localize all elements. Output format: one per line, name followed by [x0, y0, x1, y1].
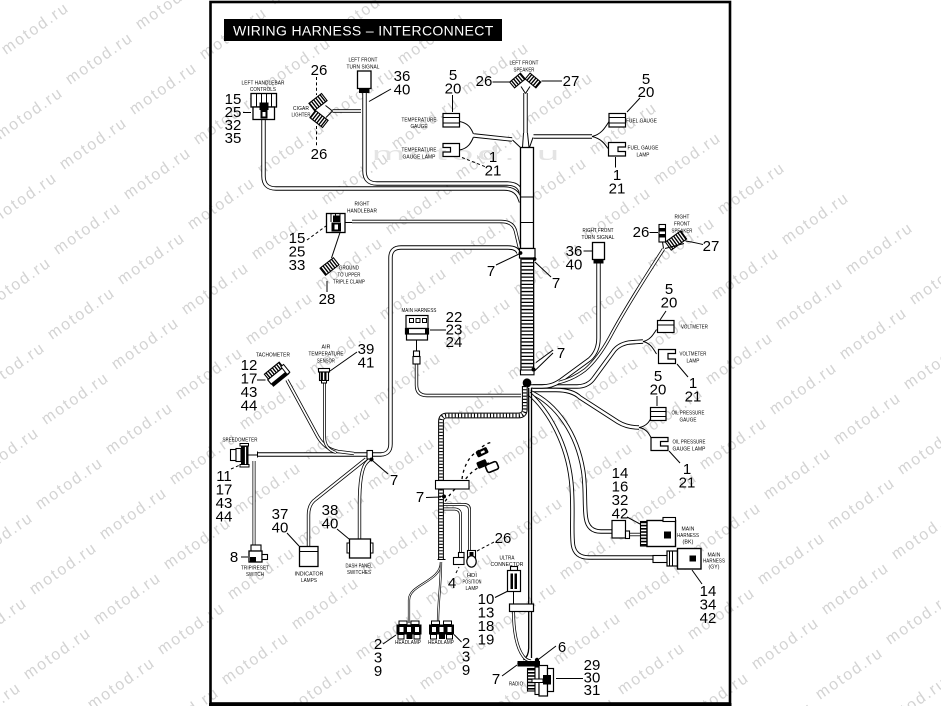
fuel gauge lamp connector: [609, 143, 626, 157]
leader 7 junction: [373, 461, 388, 474]
oil pressure gauge connector: [651, 408, 667, 421]
label fuel gauge: [626, 119, 657, 125]
svg-text:SWITCH: SWITCH: [246, 572, 264, 578]
left handlebar controls connector: [251, 94, 277, 120]
wire right front turn signal to hub: [533, 263, 599, 387]
item numbers 36 40 right turn signal: [566, 243, 583, 274]
svg-text:GAUGE: GAUGE: [411, 124, 428, 130]
position lamp bulb 26: [467, 551, 476, 568]
label right front turn signal: [582, 228, 615, 241]
leader 27 right: [686, 241, 704, 245]
item numbers 4 position lamp: [448, 575, 456, 592]
svg-text:RADIO: RADIO: [509, 682, 523, 688]
wire from indicator lamps up to junction: [309, 459, 367, 546]
svg-text:WIRING HARNESS – INTERCONNECT: WIRING HARNESS – INTERCONNECT: [233, 23, 494, 39]
leader 36 40 left: [369, 89, 391, 102]
leader 25: [243, 112, 251, 114]
wire from air temperature sensor to run: [325, 383, 337, 453]
wire from cigar lighter to turn signal wire: [333, 109, 362, 112]
leader 38 40: [337, 529, 349, 539]
voltmeter connector: [658, 321, 675, 333]
leader 14 34 42: [692, 570, 702, 584]
label oil pressure gauge: [672, 411, 705, 424]
label air temperature sensor: [309, 345, 344, 365]
svg-text:20: 20: [445, 81, 462, 98]
svg-text:TURN SIGNAL: TURN SIGNAL: [347, 65, 380, 71]
fuel fork wires: [592, 122, 609, 149]
svg-text:31: 31: [584, 682, 601, 699]
frame bottom thick edge: [209, 703, 732, 706]
conduit main vertical: [520, 259, 534, 371]
item numbers 10 13 18 19 ultra: [478, 591, 495, 649]
svg-text:HEADLAMP: HEADLAMP: [395, 640, 421, 646]
label right headlamp: [428, 640, 454, 646]
wire from main harness connector to hub: [417, 364, 522, 396]
label fuel gauge lamp: [628, 146, 659, 159]
radio junction bar: [517, 658, 540, 667]
svg-text:(BK): (BK): [683, 540, 694, 546]
label ultra connector: [491, 556, 524, 569]
main harness GY connector: [667, 549, 701, 570]
radio assembly: [528, 666, 554, 697]
cable strap junction on speedometer run: [367, 451, 374, 462]
svg-text:21: 21: [609, 181, 626, 198]
svg-text:42: 42: [612, 506, 629, 523]
svg-text:7: 7: [390, 472, 398, 489]
item numbers 1 21 temperature lamp: [485, 149, 502, 180]
svg-text:20: 20: [661, 295, 678, 312]
svg-text:SENSOR: SENSOR: [317, 359, 335, 365]
svg-text:LEFT FRONT: LEFT FRONT: [510, 61, 539, 67]
svg-text:33: 33: [289, 257, 306, 274]
wire hub to main harness GY: [529, 394, 653, 558]
ultra connector: [508, 567, 521, 605]
leader 5 20 voltmeter: [660, 311, 666, 320]
svg-text:CIGAR: CIGAR: [293, 106, 309, 112]
label trip reset switch: [241, 566, 269, 579]
label cigar lighter: [292, 106, 311, 119]
voltmeter fork wires: [643, 330, 657, 355]
item numbers 7 collar right: [552, 275, 560, 292]
item numbers 5 20 fuel gauge: [638, 71, 655, 101]
svg-text:AIR: AIR: [322, 345, 331, 351]
leader 7 hub: [535, 350, 554, 371]
item numbers 26 cigar upper: [311, 62, 328, 79]
leader 6: [539, 646, 556, 659]
item numbers 15 25 32 35 left handlebar: [225, 91, 242, 147]
leader 4 dashed: [456, 567, 459, 573]
ground to upper triple clamp connector: [320, 258, 339, 276]
label left front speaker: [510, 61, 539, 74]
svg-text:40: 40: [272, 520, 289, 537]
label dash panel switches: [346, 564, 373, 577]
svg-text:8: 8: [230, 549, 238, 566]
voltmeter lamp connector: [659, 350, 676, 364]
oil pressure gauge lamp connector: [651, 438, 668, 451]
leader 7 radio: [502, 665, 517, 676]
svg-text:POSITION: POSITION: [463, 580, 482, 586]
item numbers 6 radio strap: [558, 639, 566, 656]
left front turn signal lamp: [358, 71, 372, 93]
wire conduit to left headlamp: [409, 562, 441, 623]
svg-text:20: 20: [638, 84, 655, 101]
air temperature sensor: [319, 369, 330, 384]
svg-text:21: 21: [679, 475, 696, 492]
leader 5 20 oil: [656, 396, 658, 406]
label tachometer: [256, 353, 290, 359]
right front speaker connector: [665, 231, 686, 250]
trunk fan lines at sleeve top: [513, 133, 534, 148]
conduit end cap: [438, 559, 446, 561]
svg-text:SPEAKER: SPEAKER: [514, 68, 535, 74]
leader 23: [430, 329, 446, 331]
svg-text:7: 7: [487, 263, 495, 280]
item numbers 22 23 24 main harness: [446, 309, 463, 351]
item numbers 29 30 31 radio: [584, 657, 601, 699]
item numbers 36 40 left turn signal: [394, 68, 411, 99]
svg-text:26: 26: [495, 530, 512, 547]
item numbers 39 41 air temp sensor: [358, 341, 375, 372]
svg-text:9: 9: [462, 662, 470, 679]
svg-text:(GY): (GY): [709, 565, 720, 571]
label ground to upper triple clamp: [333, 266, 365, 286]
item numbers 7 radio: [492, 671, 500, 688]
svg-text:RIGHT: RIGHT: [355, 202, 370, 208]
left speaker V wires: [521, 87, 530, 94]
item numbers 7 hub: [557, 345, 565, 362]
ultra clamp bar: [510, 604, 534, 612]
svg-text:28: 28: [319, 291, 336, 308]
svg-text:4: 4: [448, 575, 456, 592]
svg-text:SPEEDOMETER: SPEEDOMETER: [223, 438, 258, 444]
wire hub to voltmeter fork: [531, 342, 643, 387]
svg-text:ULTRA: ULTRA: [500, 556, 515, 562]
svg-text:19: 19: [478, 632, 495, 649]
leader 10 ultra: [495, 591, 508, 598]
cable strap on conduit: [442, 495, 446, 499]
left headlamp connector: [397, 621, 422, 639]
svg-text:35: 35: [225, 130, 242, 147]
item numbers 26 left speaker: [476, 73, 493, 90]
leader 2 3 9 left: [383, 635, 396, 644]
main harness BK ferrule: [626, 531, 630, 539]
svg-text:40: 40: [566, 257, 583, 274]
label hdi position lamp: [463, 573, 482, 592]
right speaker V wires: [663, 242, 685, 249]
item numbers 38 40 dash panel: [322, 502, 339, 533]
leader 7 collar left: [496, 254, 519, 265]
svg-text:TURN SIGNAL: TURN SIGNAL: [582, 235, 615, 241]
svg-text:GROUND: GROUND: [339, 266, 359, 272]
svg-text:GAUGE LAMP: GAUGE LAMP: [403, 155, 436, 161]
leader 37 40: [287, 533, 299, 546]
svg-text:7: 7: [492, 671, 500, 688]
item numbers 7 junction: [390, 472, 398, 489]
svg-text:26: 26: [311, 146, 328, 163]
svg-text:26: 26: [633, 224, 650, 241]
cigar lighter connector upper: [309, 94, 327, 111]
temperature fork wires: [460, 122, 474, 151]
leader 39 41: [330, 352, 357, 371]
wire from left handlebar controls to trunk: [264, 120, 522, 203]
svg-text:SWITCHES: SWITCHES: [347, 570, 371, 576]
leader 1 21 fuel: [615, 157, 617, 168]
service loop connectors: [475, 447, 499, 473]
item numbers 26 position bulb: [495, 530, 512, 547]
label right handlebar: [347, 202, 377, 215]
wire conduit to position lamp bulb: [443, 505, 470, 551]
item numbers 11 17 43 44 speedometer: [216, 468, 233, 526]
main harness BK connector: [641, 518, 676, 547]
svg-text:TEMPERATURE: TEMPERATURE: [309, 352, 344, 358]
svg-text:HANDLEBAR: HANDLEBAR: [347, 209, 377, 215]
right front turn signal lamp: [593, 243, 605, 264]
svg-text:26: 26: [476, 73, 493, 90]
wire speedometer run riser to trunk collar: [258, 248, 519, 455]
label voltmeter lamp: [680, 352, 707, 365]
svg-text:TO UPPER: TO UPPER: [338, 273, 361, 279]
leader 26 right: [650, 232, 659, 234]
wire from dash panel switches up to junction: [360, 459, 371, 539]
svg-text:LAMP: LAMP: [637, 153, 650, 159]
label left front turn signal: [347, 58, 380, 71]
svg-text:VOLTMETER: VOLTMETER: [681, 325, 708, 331]
wire hub to radio junction right conductor: [531, 388, 533, 658]
svg-text:41: 41: [358, 355, 375, 372]
item numbers 1 21 oil lamp: [679, 461, 696, 492]
svg-text:7: 7: [416, 489, 424, 506]
right headlamp connector: [429, 621, 454, 639]
svg-text:LAMP: LAMP: [466, 586, 479, 592]
svg-text:40: 40: [322, 516, 339, 533]
svg-text:21: 21: [685, 389, 702, 406]
conduit hub joint: [523, 368, 536, 388]
cigar lighter connector lower: [310, 111, 328, 128]
svg-text:FRONT: FRONT: [674, 222, 690, 228]
svg-text:OIL PRESSURE: OIL PRESSURE: [673, 440, 706, 446]
left front speaker connector left: [510, 73, 526, 88]
right handlebar connector: [327, 214, 353, 233]
svg-text:TEMPERATURE: TEMPERATURE: [402, 148, 437, 154]
title bar: [224, 19, 502, 41]
svg-text:GAUGE LAMP: GAUGE LAMP: [673, 447, 706, 453]
trunk sleeve: [521, 148, 534, 249]
svg-text:HARNESS: HARNESS: [677, 533, 699, 539]
leader 26 left speaker: [493, 81, 511, 83]
leader 36 40 right: [584, 250, 593, 252]
left front speaker connector right: [525, 73, 541, 88]
leader 2 3 9 right: [454, 635, 462, 643]
item numbers 12 17 43 44 tachometer: [241, 357, 258, 415]
svg-text:GAUGE: GAUGE: [680, 418, 697, 424]
leader 1 21 oil lamp: [669, 451, 680, 463]
leader 28: [326, 281, 328, 292]
svg-text:27: 27: [703, 238, 720, 255]
leader 42 BK: [627, 517, 640, 524]
main harness GY ferrule: [653, 556, 667, 563]
item numbers 7 conduit clamp: [416, 489, 424, 506]
svg-text:HDI: HDI: [467, 573, 477, 579]
leader 15 25 33: [307, 226, 326, 240]
label oil pressure gauge lamp: [673, 440, 706, 453]
fuel gauge connector: [609, 114, 626, 128]
svg-text:FUEL GAUGE: FUEL GAUGE: [628, 146, 659, 152]
trunk collar: [519, 249, 537, 261]
item numbers 27 left speaker: [563, 73, 580, 90]
svg-text:6: 6: [558, 639, 566, 656]
conduit lower L to headlamps: [441, 386, 525, 559]
label speedometer: [223, 438, 258, 444]
svg-text:INDICATOR: INDICATOR: [295, 572, 324, 578]
item numbers 7 collar left: [487, 263, 495, 280]
leader 30: [556, 678, 583, 680]
item numbers 5 20 voltmeter: [661, 281, 678, 312]
indicator lamps: [300, 547, 319, 567]
trip reset switch: [249, 545, 268, 562]
item numbers 2 3 9 right headlamp: [462, 635, 470, 679]
svg-text:LEFT HANDLEBAR: LEFT HANDLEBAR: [242, 81, 285, 87]
item numbers 1 21 voltmeter lamp: [685, 375, 702, 406]
svg-text:44: 44: [216, 509, 233, 526]
svg-text:RIGHT FRONT: RIGHT FRONT: [583, 228, 614, 234]
svg-text:24: 24: [446, 334, 463, 351]
wire from right handlebar to trunk collar: [352, 222, 524, 253]
wire right front speaker to hub: [559, 249, 664, 383]
wire stub to main harness BK connector: [630, 533, 642, 536]
item numbers 14 34 42 main harness GY: [700, 583, 717, 627]
wire hub to radio junction left conductor: [524, 388, 529, 660]
wire speedometer to trip reset switch: [253, 461, 256, 545]
svg-text:TRIP/RESET: TRIP/RESET: [241, 566, 269, 572]
svg-text:LAMPS: LAMPS: [301, 578, 317, 584]
main harness connector pigtail: [413, 340, 420, 364]
svg-text:40: 40: [394, 82, 411, 99]
item numbers 15 25 33 right handlebar: [289, 230, 306, 274]
svg-text:MAIN HARNESS: MAIN HARNESS: [402, 308, 437, 314]
svg-text:CONTROLS: CONTROLS: [250, 87, 276, 93]
right speaker crimp splice: [659, 225, 666, 243]
svg-text:44: 44: [241, 398, 258, 415]
item numbers 2 3 9 left headlamp: [374, 636, 382, 680]
temperature gauge lamp connector: [443, 144, 460, 157]
item numbers 1 21 fuel lamp: [609, 167, 626, 198]
svg-text:VOLTMETER: VOLTMETER: [680, 352, 707, 358]
svg-text:7: 7: [557, 345, 565, 362]
wire from tachometer to speedometer run: [287, 380, 354, 454]
leader 26 position lamp dashed: [477, 542, 494, 551]
oil pressure fork wires: [639, 415, 653, 442]
main harness connector 22 23 24: [406, 316, 429, 341]
wire ultra connector through clamp to radio junction: [514, 612, 532, 662]
leader 5 20 temperature: [452, 95, 454, 112]
leader 1 21 temperature dashed: [462, 158, 486, 168]
svg-text:OIL PRESSURE: OIL PRESSURE: [672, 411, 705, 417]
wire fuel gauge feed from trunk: [534, 134, 593, 138]
frame border: [211, 2, 731, 704]
wire temperature gauge feed from trunk: [474, 136, 512, 140]
item numbers 26 right splice: [633, 224, 650, 241]
svg-text:7: 7: [552, 275, 560, 292]
speedometer connector: [231, 444, 258, 468]
leader 26 top dashed: [316, 77, 318, 95]
svg-text:27: 27: [563, 73, 580, 90]
wire from left front turn signal to trunk: [365, 93, 522, 194]
svg-text:CONNECTOR: CONNECTOR: [491, 562, 524, 568]
dash panel switches: [347, 539, 373, 558]
conduit clamp bar: [436, 481, 470, 490]
label temperature gauge: [402, 118, 437, 131]
svg-text:HEADLAMP: HEADLAMP: [428, 640, 454, 646]
item numbers 14 16 32 42 main harness BK: [612, 465, 629, 523]
svg-text:TACHOMETER: TACHOMETER: [256, 353, 290, 359]
item numbers 5 20 oil gauge: [650, 368, 667, 399]
svg-text:20: 20: [650, 382, 667, 399]
leader 7 collar right: [535, 262, 551, 277]
item numbers 28 ground: [319, 291, 336, 308]
svg-text:RIGHT: RIGHT: [675, 215, 690, 221]
tachometer connector: [264, 361, 291, 387]
leader 27 left speaker: [542, 80, 563, 82]
label radio: [509, 682, 523, 688]
hdi position lamp connector: [454, 553, 465, 565]
item numbers 5 20 temperature gauge: [445, 67, 462, 98]
leader 17 tach: [257, 379, 266, 381]
cigar lighter V wires: [326, 106, 333, 118]
label main harness bk: [677, 527, 699, 546]
svg-text:DASH PANEL: DASH PANEL: [346, 564, 373, 570]
main harness BK clamp: [612, 521, 626, 539]
leader 11 dashed: [231, 465, 241, 470]
item numbers 27 right speaker: [703, 238, 720, 255]
conduit bottom collar: [521, 370, 535, 375]
temperature gauge connector: [443, 114, 460, 128]
svg-text:MAIN: MAIN: [682, 527, 695, 533]
svg-text:21: 21: [485, 163, 502, 180]
svg-text:9: 9: [374, 663, 382, 680]
dashed service loop: [444, 443, 492, 505]
svg-text:FUEL GAUGE: FUEL GAUGE: [626, 119, 657, 125]
wire hub to oil pressure fork: [531, 390, 639, 428]
label main harness gy: [703, 553, 725, 571]
label left handlebar controls: [242, 81, 285, 94]
leader 7 conduit clamp: [426, 496, 441, 499]
svg-text:SPEAKER: SPEAKER: [672, 229, 693, 235]
item numbers 8 trip reset: [230, 549, 238, 566]
wire conduit to right headlamp: [438, 562, 441, 623]
svg-text:42: 42: [700, 610, 717, 627]
svg-text:TEMPERATURE: TEMPERATURE: [402, 118, 437, 124]
svg-text:LEFT FRONT: LEFT FRONT: [349, 58, 378, 64]
label right front speaker: [672, 215, 693, 235]
svg-text:LAMP: LAMP: [687, 359, 700, 365]
svg-text:TRIPLE CLAMP: TRIPLE CLAMP: [333, 280, 365, 286]
label left headlamp: [395, 640, 421, 646]
ground wire: [332, 233, 341, 259]
item numbers 26 cigar lower: [311, 146, 328, 163]
wire hub to main harness BK: [530, 392, 612, 532]
leader 8: [241, 556, 248, 558]
leader 26 bottom dashed: [316, 126, 318, 146]
label temperature gauge lamp: [402, 148, 437, 161]
leader 5 20 fuel: [627, 98, 640, 112]
label voltmeter: [681, 325, 708, 331]
leader 1 21 voltmeter lamp: [677, 364, 688, 377]
item numbers 37 40 indicator lamps: [272, 506, 289, 537]
label main harness: [402, 308, 437, 314]
svg-text:LIGHTER: LIGHTER: [292, 113, 311, 119]
wire conduit to hdi position lamp connector: [443, 509, 461, 553]
svg-text:26: 26: [311, 62, 328, 79]
